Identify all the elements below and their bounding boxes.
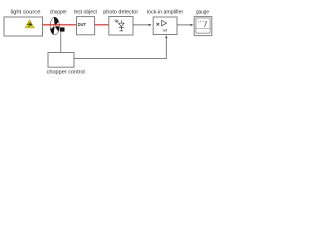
mixer x symbol [156,23,159,26]
gauge meter icon [196,18,210,33]
wire: photo detector to lock-in amplifier [133,24,150,26]
svg-text:chopper: chopper [50,9,67,15]
wire: chopper control to lock-in ref input [74,37,166,58]
svg-text:chopper control: chopper control [47,70,85,76]
svg-text:photo detector: photo detector [103,9,138,15]
wire: laser beam light source to DUT (red) [43,24,77,26]
wire: lock-in amplifier to gauge [177,24,191,26]
block: photo detector box [109,17,133,36]
chopper sensor head [60,27,65,31]
svg-text:DUT: DUT [78,22,86,28]
beam: chopper wheel backdrop [50,17,59,35]
arrowhead into gauge [191,24,194,26]
svg-text:gauge: gauge [196,9,209,15]
amplifier triangle [162,20,167,25]
block: light source box [4,17,43,36]
arrowhead into lock-in [149,24,152,26]
block: DUT box (test object) [77,17,95,35]
block: chopper control box [48,53,74,68]
block: lock-in amplifier box [153,17,177,35]
wire: laser beam DUT to photo detector (red) [95,24,109,26]
laser warning triangle [25,20,34,28]
wire: chopper sensor down to chopper control [60,32,62,52]
svg-text:test object: test object [74,9,97,15]
arrowhead into lock-in ref [165,35,167,38]
block: gauge box [194,17,212,36]
chopper wheel [50,17,59,35]
svg-text:light source: light source [11,9,41,15]
svg-text:lock-in amplifier: lock-in amplifier [147,9,183,15]
photodiode symbol [115,19,125,31]
